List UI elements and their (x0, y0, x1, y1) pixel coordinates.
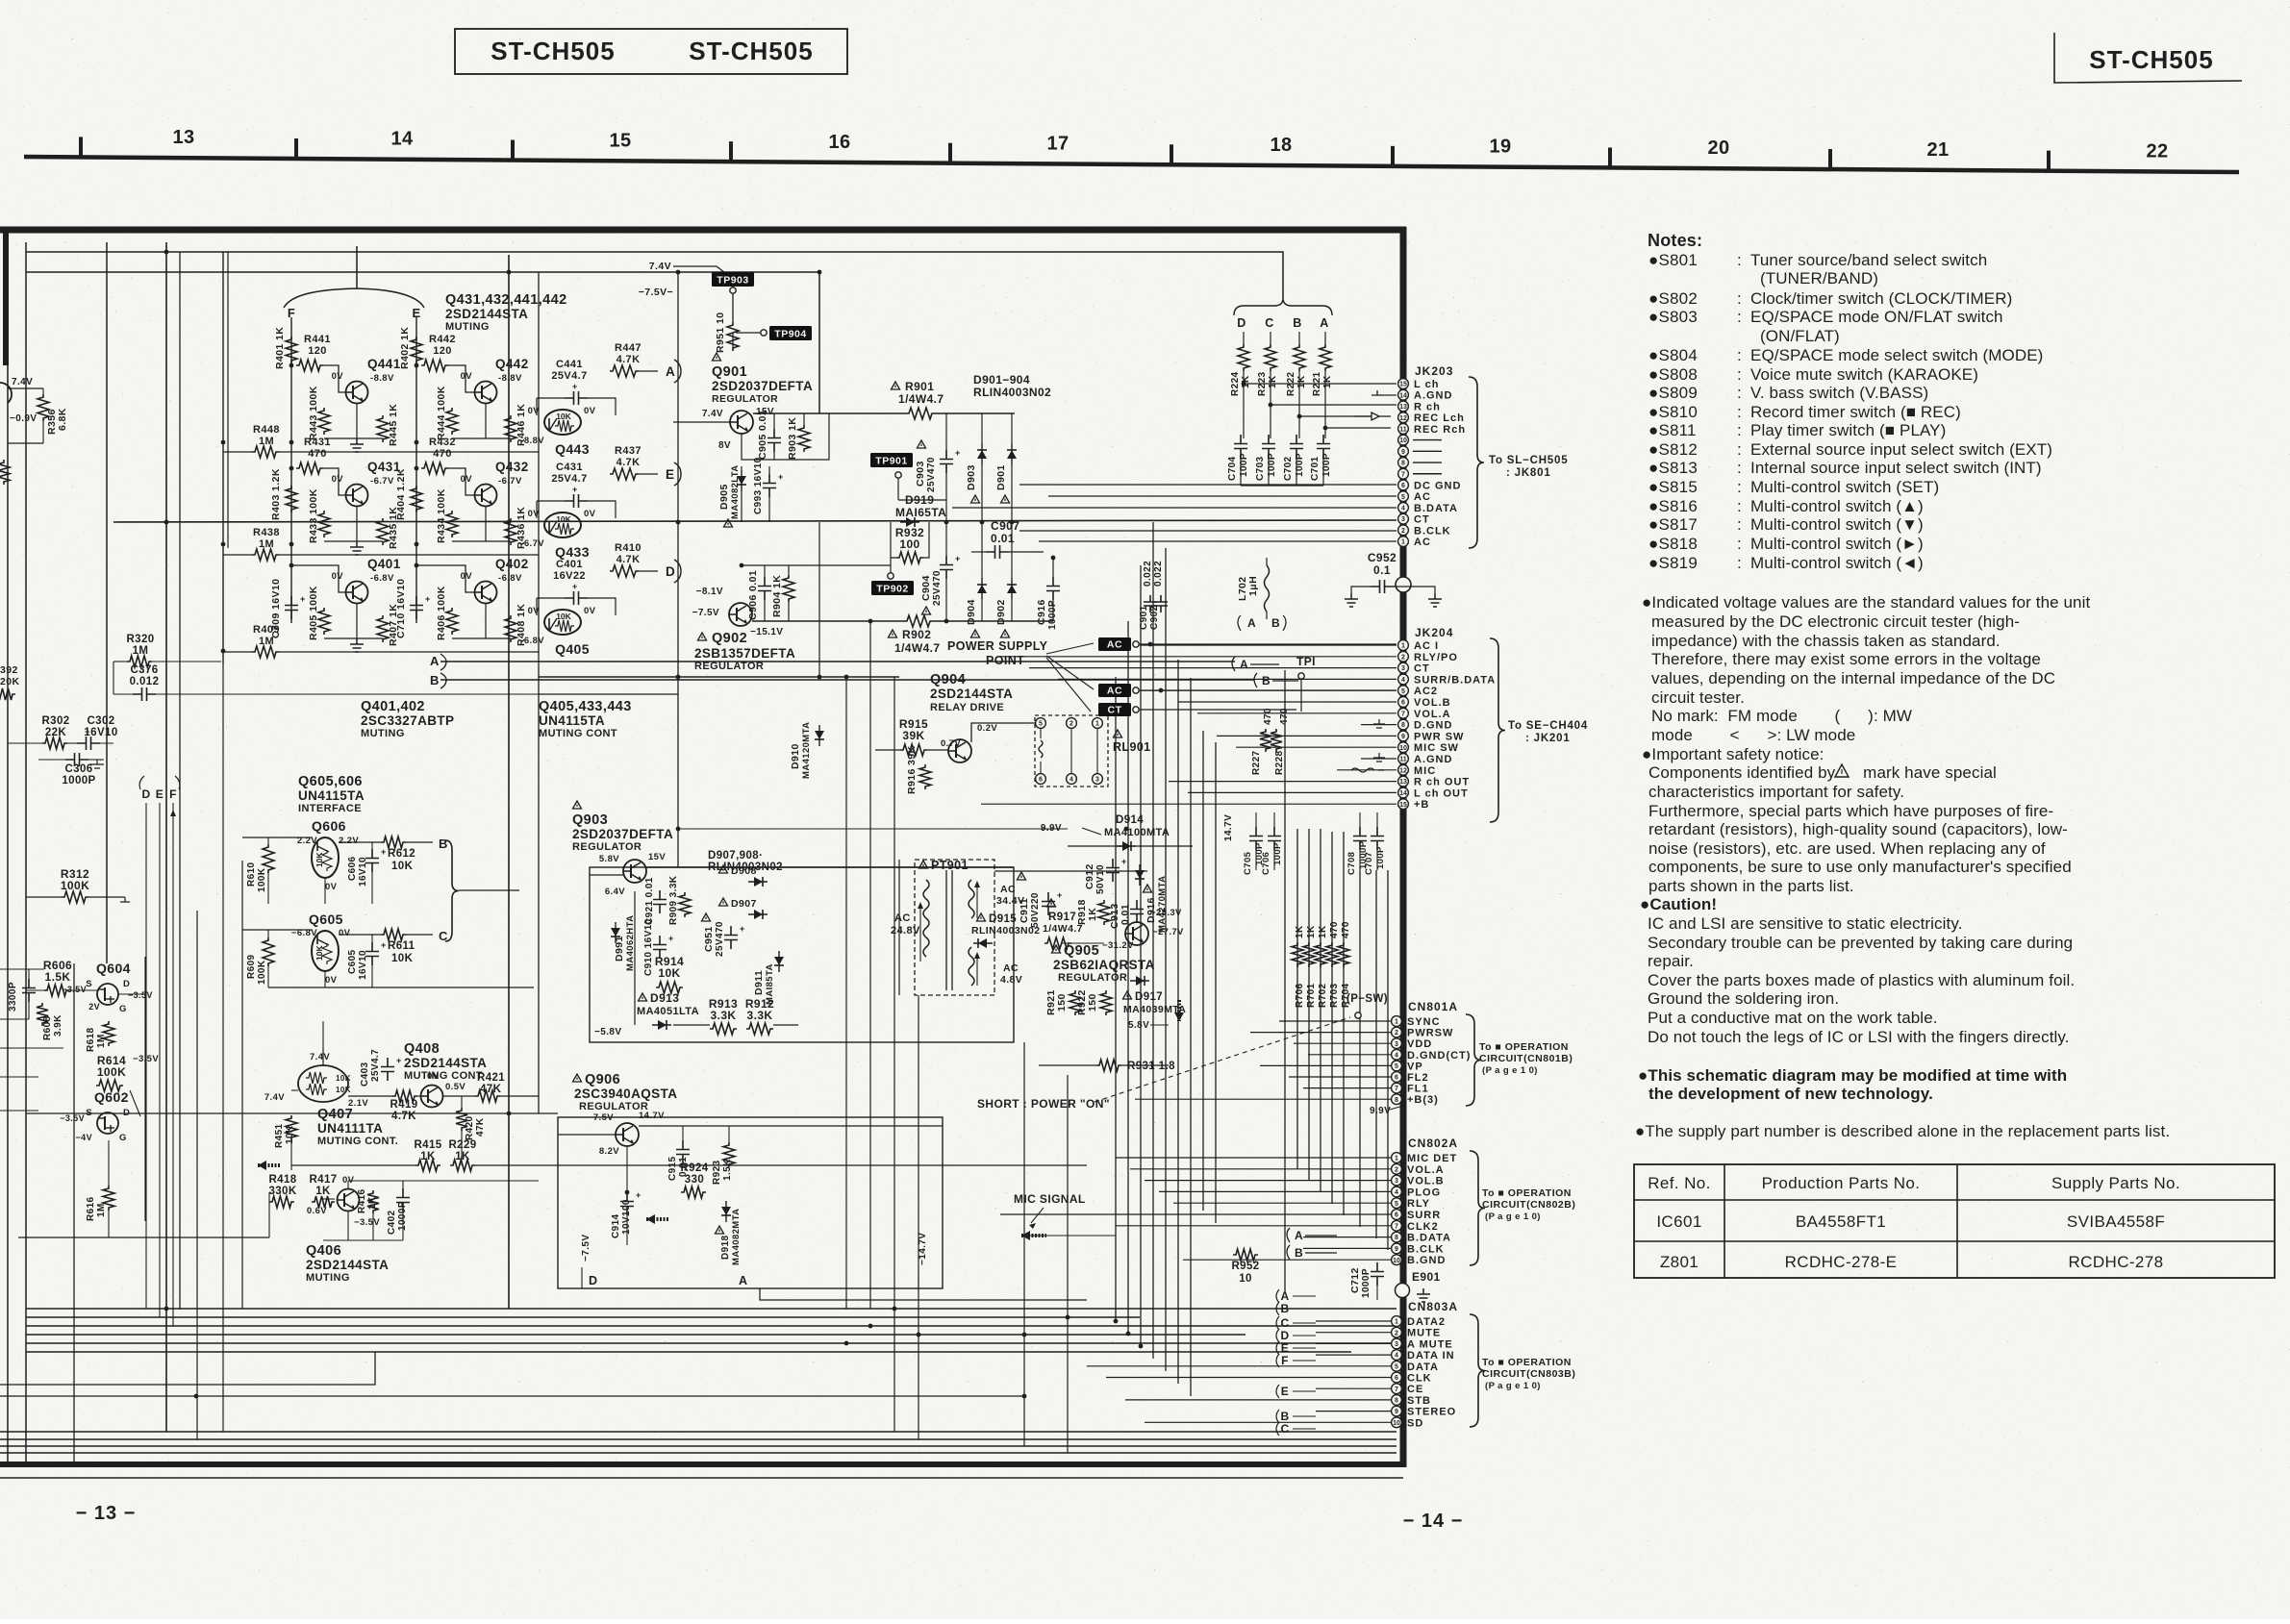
wire right feeder vertical 4 (1152, 522, 1154, 1359)
diode D903 (977, 450, 987, 459)
wire stub JK204 pin 6 (1178, 701, 1397, 703)
wire Q602 pointer (130, 1090, 140, 1116)
wire right feeder vertical 6 (1177, 660, 1179, 1384)
wire stub JK204 pin 1 (1140, 644, 1397, 646)
top-right title rule (2054, 33, 2242, 83)
diode D902 (1007, 585, 1017, 593)
wire mid vertical x205 (196, 911, 198, 1439)
wire stub JK204 pin 11 (1361, 758, 1397, 760)
connector CN801A (1392, 1016, 1402, 1027)
wire right feeder vertical 18 (1387, 870, 1389, 1250)
wire bottom bus A line 5 (26, 1342, 1397, 1344)
wire bottom bus A line 6 (26, 1351, 1351, 1353)
wire inter-sheet B row3 horizontal (440, 679, 1255, 681)
diode D918 MA4082MTA (721, 1207, 731, 1215)
test point TP904 (769, 326, 812, 340)
wire left feed row Q431 (223, 554, 252, 556)
Q906 block frame (558, 1117, 943, 1288)
resistor R703 470 (1326, 942, 1338, 967)
wire stub CN802A pin 3 (1145, 1180, 1391, 1182)
regulator Q902 label (698, 633, 707, 640)
wire right feeder vertical 9 (1215, 742, 1217, 1223)
transformer PT901 core (945, 870, 947, 990)
wire stub CN802A pin 2 (1130, 1168, 1391, 1170)
transistor Q903 (623, 860, 646, 883)
wire mid vertical x852b (818, 522, 820, 677)
wire mid vertical x955 (918, 995, 919, 1439)
digital transistor Q407 (298, 1065, 348, 1102)
regulator Q906 label (573, 1074, 582, 1082)
wire stub CN803A pin 3 (1316, 1342, 1391, 1344)
wire D914 row (1068, 845, 1193, 847)
wire mid rail y588 (742, 564, 891, 566)
wire to net E (639, 473, 658, 475)
resistor R611 10K (381, 929, 406, 940)
test point TP901 (870, 453, 913, 467)
wire stub CN803A pin 5 (1087, 1365, 1391, 1367)
hatched arrow down (1177, 1000, 1181, 1021)
resistor R419 4.7K (392, 1090, 417, 1102)
schematic bottom border (0, 1462, 1406, 1467)
partial transistor left edge (0, 383, 12, 403)
mic signal hatched arrow (1021, 1234, 1046, 1237)
junction dots (164, 250, 169, 255)
wire stub JK204 pin 4 (1058, 678, 1397, 680)
wire left vertical x232 (222, 252, 224, 663)
wire stub JK203 AC1 (1039, 540, 1397, 542)
wire left vertical x173 (165, 242, 167, 1432)
resistor R405 100K (318, 608, 330, 635)
wire Q906 rail (639, 1125, 943, 1127)
capacitor C905 0.01 (768, 429, 781, 452)
wire top horizontal y262 (26, 252, 1283, 298)
brace interface B C (445, 840, 459, 941)
capacitor C911 50V220 (1018, 872, 1026, 880)
capacitor C914 10V100 (620, 1192, 634, 1215)
resistor R618 1M (103, 1021, 114, 1046)
capacitor C702 100P (1290, 435, 1303, 458)
wire bank caps common (1241, 485, 1323, 487)
notes warning triangle (1835, 764, 1849, 777)
wire left vertical x560 (538, 272, 540, 1113)
wire stub JK203 AC5 (1048, 495, 1397, 497)
wire Q902 collector rail y646 (752, 620, 904, 622)
wire base feed Q431 (323, 468, 345, 495)
wire base feed Q442 (448, 365, 474, 392)
power point CT (1098, 703, 1131, 716)
wire right feeder vertical 14 (1331, 832, 1333, 1204)
wire to net D (639, 570, 658, 572)
resistor R404 1.2K (411, 486, 422, 512)
capacitor C903 25V470 (940, 450, 953, 473)
ruler line (24, 157, 2239, 172)
resistor R916 39K (919, 764, 931, 789)
capacitor C703 100P (1262, 435, 1275, 458)
capacitor C904 25V470 (940, 556, 953, 579)
wire cap frame C441 (537, 397, 565, 399)
wire PT901 rails (994, 870, 1147, 872)
wire mic row (1021, 1235, 1116, 1237)
resistor R227 470 (1260, 729, 1271, 752)
wire stub JK204 pin 7 (1197, 712, 1397, 714)
resistor R416 1K (367, 1190, 379, 1213)
junction dots row Q431 (289, 466, 294, 471)
wire stub CN801A pin 1 (1279, 1020, 1391, 1022)
wire right feeder vertical 3 (1140, 565, 1142, 1346)
resistor R701 1K (1303, 942, 1315, 967)
wire stub JK204 pin 2 (1000, 656, 1397, 658)
capacitor C916 1000P (1046, 577, 1060, 600)
resistor R433 100K (318, 511, 330, 537)
wire R932 frame (891, 522, 896, 558)
wire left edge top (8, 387, 43, 389)
brace over DCBA (1234, 298, 1332, 315)
wire cap frame C431 (537, 500, 565, 502)
wire short power dashed diagonal (1095, 1017, 1350, 1102)
wire fet block frame (26, 989, 44, 991)
resistor R608 3.9K (37, 1003, 48, 1026)
wire mid horizontal y862 (678, 828, 1068, 830)
capacitor C993 16V10 (763, 474, 776, 497)
resistor R223 1K (1270, 332, 1271, 344)
resistor R436 1K (505, 518, 516, 545)
wire Q406 frame (323, 1198, 335, 1200)
resistor R903 1K (798, 425, 810, 452)
wire stub CN801A pin 3 (1294, 1042, 1391, 1044)
wire R415 row (291, 1164, 415, 1166)
wire mid vertical x252 (241, 861, 243, 1309)
resistor R612 10K (381, 837, 406, 848)
connector JK203 (1398, 379, 1409, 389)
wire C952 left ground (1351, 587, 1371, 593)
resistor R224 1K (1243, 332, 1245, 344)
wire top horizontal y283 (26, 272, 819, 413)
wire stub CN802A pin 10 (1183, 1259, 1391, 1261)
resistor R923 1.5K (723, 1142, 735, 1167)
power supply point arrows (1046, 643, 1094, 654)
wire stub JK203 DC GND (1019, 484, 1397, 486)
ruler tick 18 (1170, 144, 1173, 165)
wire stub CN803A pin 7 (1316, 1387, 1391, 1389)
parts table column divider 1 (1724, 1164, 1725, 1278)
wire emitter ground Q402 (485, 604, 487, 638)
digital transistor Q405 (544, 610, 581, 635)
wire left vertical x529 (508, 255, 510, 1309)
Q903 block frame (590, 867, 1014, 1042)
wire Q605 frame (242, 929, 312, 931)
transistor Q905 (1125, 922, 1148, 945)
wire lower-left horizontal y1440 (0, 1352, 375, 1385)
wire stub CN801A pin 6 (1289, 1076, 1391, 1078)
wire bottom bus A line 4 (26, 1334, 1246, 1336)
capacitor C910 16V10 (653, 936, 667, 959)
wire stub JK204 pin 3 (1029, 667, 1397, 669)
regulator Q901 label (713, 353, 721, 361)
diode D901 (1007, 450, 1017, 459)
wire stub JK203 B.DATA (952, 507, 1397, 509)
wire base feed Q402 (416, 565, 474, 592)
resistor R610 100K (263, 844, 274, 873)
resistor left edge y485 (0, 460, 10, 485)
wire mid vertical x880 (845, 677, 847, 1309)
diode D915 RLIN4003N02 (977, 913, 986, 921)
wire cap frame C401 (537, 597, 565, 599)
transistor Q902 (729, 603, 752, 626)
ruler tick 20 (1608, 147, 1612, 168)
connector JK204 (1398, 640, 1409, 651)
resistor R445 1K (377, 415, 389, 442)
wire bottom bus A line 3 (26, 1325, 1397, 1327)
transistor Q906 (616, 1123, 639, 1146)
diode D916 MA4270MTA (1135, 870, 1145, 879)
junction dots row Q401 (289, 563, 294, 568)
resistor R616 1M (103, 1186, 114, 1211)
ruler tick 14 (294, 138, 298, 160)
wire base feed Q441 (323, 365, 345, 392)
wire stub JK204 pin 13 (1169, 781, 1397, 783)
ruler tick 19 (1391, 146, 1395, 167)
resistor R420 47K (456, 1108, 467, 1131)
wire left vertical x8 (7, 365, 9, 1464)
wire right feeder vertical 8 (1202, 731, 1204, 1211)
resistor R952 10 (1233, 1249, 1258, 1261)
resistor R702 1K (1315, 942, 1326, 967)
brace JK204 (1490, 638, 1505, 822)
brace CN802A (1470, 1151, 1485, 1265)
wire stub CN802A pin 5 (1173, 1202, 1391, 1204)
transistor Q408 (421, 1086, 443, 1108)
wire stub CN801A pin 7 (1303, 1087, 1391, 1089)
wire emitter ground Q441 (356, 404, 358, 438)
wire E-drop column (415, 317, 417, 623)
junction dots row Q441 (289, 363, 294, 368)
wire bottom bus B line 4 (0, 1452, 1397, 1454)
mic squiggle (1351, 768, 1384, 772)
transformer arrows (919, 904, 921, 962)
transformer PT901 primary winding (923, 880, 929, 957)
wire Q903 rail (646, 866, 1014, 868)
transistor Q406 (338, 1189, 360, 1212)
wire stub CN803A pin 10 (1145, 1421, 1391, 1423)
resistor R917 1/4W4.7 (1047, 899, 1056, 907)
ground A.GND JK203 (1371, 390, 1383, 395)
diode D917 MA4039MTA (1136, 976, 1145, 986)
brace JK203 (1469, 377, 1484, 548)
wire right feeder vertical 15 (1343, 832, 1345, 1215)
resistor R444 100K (446, 408, 458, 435)
diode D913 MA4051LTA (639, 993, 647, 1001)
ruler tick 16 (729, 141, 733, 162)
wire bottom bus A line 2 (26, 1316, 1140, 1318)
capacitor C915 0.01 (676, 1140, 690, 1163)
wire right feeder vertical 7 (1190, 678, 1192, 1396)
resistor R909 3.3K (679, 892, 691, 917)
ground A.GND JK204 (1373, 753, 1385, 762)
diode D908 (719, 865, 728, 873)
wire stub CN802A pin 7 (1116, 1225, 1391, 1227)
wire left feed row Q401 (223, 651, 252, 653)
wire R bank to JK203 (1244, 383, 1397, 385)
diode D904 (977, 585, 987, 593)
wire bottom rail y1536 (0, 1477, 1403, 1479)
relay RL901 (1035, 715, 1108, 787)
wire C952 right ground (1394, 587, 1435, 593)
wire right feeder vertical 2 (1127, 621, 1129, 1334)
wire stub CN802A pin 1 (1116, 1157, 1391, 1159)
wire Q407 feeds (322, 1048, 324, 1065)
wire right feeder vertical 17 (1375, 870, 1377, 1238)
wire left entries (0, 968, 44, 970)
wire bottom bus B line 2 (0, 1438, 1397, 1440)
node A CN802A side (1287, 1228, 1290, 1242)
wire stub CN803A pin 8 (1125, 1399, 1391, 1401)
node circle on border (1396, 577, 1411, 592)
connector CN803A (1392, 1316, 1402, 1327)
schematic right border (1400, 227, 1407, 1467)
wire right feeder vertical 10 (1284, 670, 1286, 1292)
capacitor C701 100P (1317, 435, 1330, 458)
wire left vertical x187 (179, 252, 181, 1310)
wire right feeder vertical 12 (1308, 829, 1310, 1181)
wire lower-left horizontal y1452 (0, 1395, 1024, 1397)
wire mid rail y704 (539, 676, 899, 678)
resistor R704 470 (1338, 942, 1349, 967)
ground D.GND JK204 (1373, 719, 1385, 728)
wire bottom bus A line 1 (26, 1308, 1397, 1310)
wire mid vertical x705 (677, 272, 679, 867)
wire stub JK204 pin 12 (1337, 769, 1397, 771)
resistor R435 1K (377, 518, 389, 545)
test point TP902 (888, 573, 893, 579)
brace CN801A (1466, 1014, 1481, 1106)
resistor R403 1.2K (286, 486, 297, 512)
wire mid horizontal y1158 (26, 1112, 558, 1114)
resistor R901 1/4W4.7 (892, 382, 900, 389)
wire left vertical x111 (106, 242, 108, 963)
resistor R443 100K (318, 408, 330, 435)
parts table column divider 2 (1956, 1164, 1958, 1278)
node A JK204 side (1232, 657, 1235, 671)
resistor R408 1K (505, 615, 516, 642)
brace over F and E (284, 246, 424, 308)
resistor R402 1K (411, 337, 422, 363)
wire stub CN803A pin 2 (1316, 1332, 1391, 1334)
wire mid vertical x905 (869, 621, 871, 1309)
wire stub JK204 pin 8 (1361, 724, 1397, 726)
Q906 hatched arrow (646, 1217, 669, 1221)
wire D905 to rail (741, 466, 742, 470)
capacitor C906 0.01 (758, 577, 771, 600)
wire right feeder vertical 11 (1296, 829, 1298, 1169)
resistor R356 6.8K (38, 394, 49, 421)
wire right feeder vertical 13 (1320, 829, 1321, 1192)
power point AC 2 (1098, 684, 1131, 697)
node B JK204 side (1254, 673, 1257, 687)
wire bottom bus B line 1 (0, 1431, 1397, 1433)
capacitor C704 100P (1234, 435, 1247, 458)
ruler tick 22 (2047, 151, 2051, 172)
resistor R401 1K (286, 337, 297, 363)
wire stub JK204 pin 9 (1217, 735, 1397, 737)
wire stub JK204 pin 14 (1188, 791, 1397, 793)
wire stub JK203 B.CLK (1019, 530, 1397, 532)
wire stub CN803A pin 6 (1106, 1377, 1391, 1379)
capacitor C710 16V10 (410, 596, 423, 619)
resistor R609 100K (263, 937, 274, 966)
wire stub JK204 pin 10 (1236, 746, 1397, 748)
wire emitter ground Q432 (485, 507, 487, 541)
wire stub CN802A pin 9 (1303, 1247, 1391, 1249)
node B CN802A side (1287, 1245, 1290, 1260)
wire Q906 bottom exit (760, 1288, 1087, 1300)
wire Q904 base (927, 749, 948, 751)
ruler tick 15 (511, 140, 515, 162)
wire emitter ground Q431 (356, 507, 358, 541)
wire emitter ground Q442 (485, 404, 487, 438)
capacitor C921 0.01 (653, 890, 667, 913)
resistor R451 10K (286, 1115, 297, 1140)
wire stub CN802A pin 8 (1303, 1237, 1391, 1238)
wire stub CN802A pin 6 (1000, 1213, 1391, 1215)
wire stub CN801A pin 8 (1135, 1098, 1391, 1100)
wire stub JK204 pin 5 (1140, 689, 1397, 691)
wire Q903 internal (634, 891, 636, 1025)
wire left vertical x237 (227, 252, 229, 548)
wire stub CN803A pin 1 (1316, 1320, 1391, 1322)
capacitor C402 1000P (396, 1188, 410, 1212)
wire mid vertical x1065 (1023, 1042, 1025, 1446)
resistor R434 100K (446, 511, 458, 537)
left hatched arrow muting (258, 1163, 281, 1167)
wire right feeder vertical 16 (1359, 870, 1361, 1227)
diode D907 (719, 898, 728, 906)
wire right feeder vertical 1 (1115, 677, 1117, 1321)
test point TP903 (712, 272, 754, 287)
parts table row divider 2 (1634, 1240, 2275, 1242)
wire Q407-Q408 (348, 1095, 392, 1097)
wire stub CN803A pin 4 (1316, 1354, 1391, 1356)
wire Q901 emitter join (742, 413, 829, 460)
wire left feed row Q441 (223, 451, 252, 453)
wire stub CN803A pin 9 (1316, 1411, 1391, 1412)
wire stub CN801A pin 2 (1250, 1032, 1391, 1034)
regulator Q903 label (573, 801, 582, 809)
capacitor C606 16V10 (365, 849, 379, 872)
capacitor C708 1000P (1353, 827, 1367, 850)
transistor Q901 (730, 411, 753, 434)
capacitor C705 100P (1249, 827, 1263, 850)
wire mid rail y543 (113, 520, 1397, 522)
digital transistor Q443 (544, 410, 581, 435)
capacitor C951 25V470 (702, 913, 711, 921)
wire base feed Q432 (448, 468, 474, 495)
wire Q901 collector rail (753, 412, 906, 414)
transformer PT901 secondary winding 2 (969, 947, 974, 986)
arrow REC Lch (1354, 412, 1379, 420)
wire 7.4V corner (673, 266, 733, 279)
capacitor C707 100P (1371, 827, 1384, 850)
resistor R902 1/4W4.7 (904, 615, 933, 627)
resistor R221 1K (1324, 332, 1326, 344)
wire TP903 drop (732, 287, 734, 322)
wire stub CN801A pin 5 (1260, 1064, 1391, 1066)
wire mid vertical x1110 (1067, 1075, 1069, 1453)
capacitor C605 16V10 (365, 942, 379, 965)
left page-edge heavy line (3, 227, 9, 365)
parts table frame (1634, 1164, 2275, 1278)
wire Q606 frame (242, 837, 312, 838)
digital transistor Q433 (544, 512, 581, 537)
